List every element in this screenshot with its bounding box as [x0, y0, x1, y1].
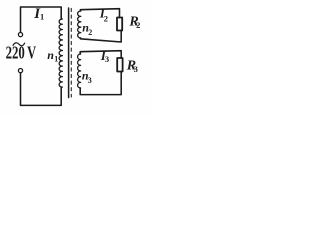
secondary winding n3 (coil): [78, 54, 81, 88]
resistor R3 (box): [117, 58, 122, 72]
svg-text:2: 2: [88, 28, 92, 37]
svg-text:3: 3: [134, 64, 138, 74]
svg-text:2: 2: [136, 20, 140, 30]
svg-text:1: 1: [40, 12, 44, 22]
terminal: source top: [18, 33, 22, 37]
wire: secondary loop 3 (bottom): [80, 72, 121, 95]
svg-text:3: 3: [88, 76, 92, 85]
wire: primary loop bottom: [21, 73, 62, 105]
transformer core: solid lamination line: [68, 8, 70, 98]
ac source tilde symbol: [13, 43, 25, 46]
resistor R2 (box): [117, 18, 122, 31]
primary winding n1 (coil): [59, 19, 62, 87]
wire: secondary loop 3 (top): [80, 51, 121, 58]
secondary winding n2 (coil): [78, 11, 81, 38]
svg-text:220: 220: [6, 44, 25, 64]
svg-text:2: 2: [104, 14, 108, 24]
wire: primary loop top: [21, 7, 62, 32]
terminal: source bottom: [18, 69, 22, 73]
svg-text:1: 1: [54, 54, 58, 63]
svg-text:n: n: [47, 48, 54, 62]
wire: secondary loop 2 (top): [80, 9, 119, 18]
transformer core: dashed lamination line: [70, 9, 72, 98]
svg-text:3: 3: [105, 54, 109, 64]
svg-text:V: V: [27, 43, 36, 63]
wire: secondary loop 2 (bottom): [80, 30, 121, 42]
